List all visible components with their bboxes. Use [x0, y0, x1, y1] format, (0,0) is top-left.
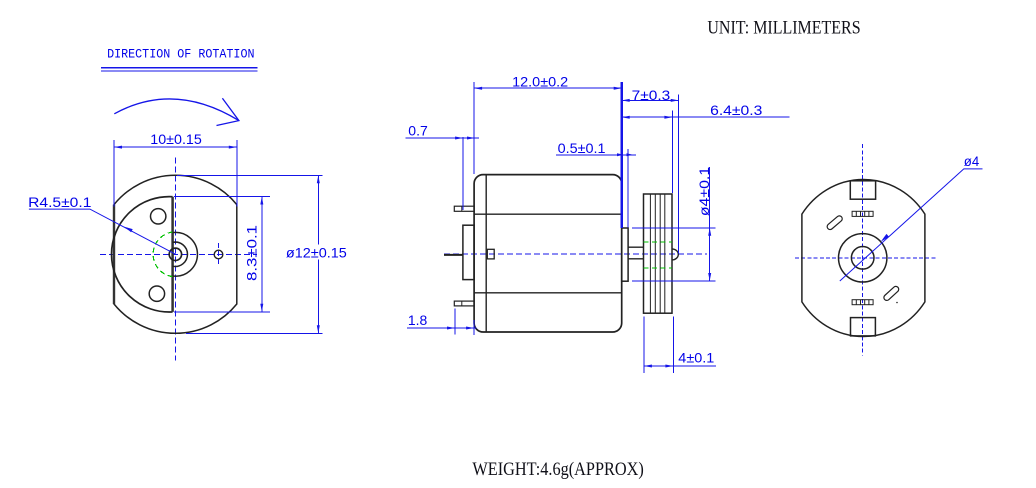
- unit note: [707, 17, 860, 38]
- dimension ø12±0.15: [177, 175, 348, 333]
- dimension 0.7: [405, 122, 479, 210]
- bearing boss circle: [839, 234, 887, 282]
- right view horizontal centerline: [795, 257, 936, 259]
- dimension 0.5±0.1: [556, 140, 636, 228]
- bottom crimp bar: [852, 300, 873, 305]
- endcap D-contour vertical edge: [171, 197, 174, 312]
- svg-text:WEIGHT:4.6g(APPROX): WEIGHT:4.6g(APPROX): [472, 459, 643, 480]
- dimension 1.8: [407, 309, 477, 335]
- svg-text:0.7: 0.7: [408, 122, 428, 138]
- lower-right vent slot: [883, 285, 900, 301]
- weight note: [472, 459, 643, 480]
- rear boss rectangle: [463, 225, 474, 279]
- svg-text:0.5±0.1: 0.5±0.1: [558, 140, 606, 156]
- dimension 10±0.15: [114, 131, 237, 207]
- bearing hub arc large: [173, 232, 198, 276]
- green shaft reference dashes: [644, 242, 673, 268]
- shaft hole circle rear: [851, 246, 874, 269]
- rear shaft stub: [444, 254, 463, 256]
- bottom brush tab: [851, 318, 876, 336]
- dimension 8.3±0.1: [174, 197, 270, 312]
- front boss rectangle: [622, 228, 628, 281]
- svg-text:UNIT: MILLIMETERS: UNIT: MILLIMETERS: [707, 17, 860, 38]
- terminal pin top: [454, 206, 474, 211]
- endcap seam line: [485, 175, 487, 332]
- body crimp line top: [474, 213, 622, 215]
- svg-text:1.8: 1.8: [408, 312, 428, 328]
- svg-text:10±0.15: 10±0.15: [150, 131, 202, 147]
- left view horizontal centerline: [100, 253, 257, 255]
- rotation arrow: [114, 98, 239, 125]
- terminal pin bottom: [454, 301, 474, 306]
- lower mounting hole: [149, 286, 164, 301]
- small pilot hole right of center: [214, 243, 223, 267]
- right view vertical centerline: [862, 144, 864, 356]
- dimension 4±0.1: [644, 317, 716, 373]
- left view vertical centerline: [174, 158, 176, 361]
- dimension 7±0.3: [622, 87, 679, 254]
- svg-text:ø4: ø4: [964, 153, 980, 169]
- svg-text:7±0.3: 7±0.3: [632, 87, 671, 103]
- rear endcap outer contour: [802, 179, 925, 336]
- top brush tab: [850, 181, 875, 199]
- callout ø4: [840, 153, 983, 281]
- motor body outline: [474, 175, 622, 332]
- endcap D-contour arc R4.5: [112, 197, 173, 312]
- svg-text:R4.5±0.1: R4.5±0.1: [28, 194, 92, 210]
- radius callout R4.5±0.1: [28, 194, 175, 254]
- svg-text:8.3±0.1: 8.3±0.1: [243, 225, 259, 281]
- direction of rotation label: [101, 47, 257, 71]
- motor face outer contour (circle dia12 with side flats): [114, 175, 237, 333]
- svg-text:12.0±0.2: 12.0±0.2: [512, 73, 568, 89]
- internal bearing square: [487, 249, 494, 259]
- body crimp line bottom: [474, 292, 622, 294]
- bearing hub arc small: [173, 242, 188, 266]
- upper mounting hole: [151, 209, 166, 224]
- worm gear body: [644, 194, 673, 313]
- shaft tip round end: [672, 249, 678, 260]
- dimension ø4±0.1 vertical: [632, 167, 716, 281]
- upper-left vent slot: [826, 215, 843, 231]
- front shaft lines: [628, 247, 643, 259]
- middle view horizontal centerline: [444, 253, 707, 255]
- dimension 12.0±0.2: [474, 73, 622, 228]
- shaft hole circle: [169, 248, 181, 260]
- left flat thick edge: [113, 205, 115, 304]
- top crimp bar: [852, 211, 873, 216]
- stray dot: [896, 302, 898, 304]
- green reference dashed arc: [153, 232, 173, 277]
- svg-text:4±0.1: 4±0.1: [678, 350, 714, 366]
- svg-text:ø12±0.15: ø12±0.15: [286, 245, 347, 261]
- svg-text:ø4±0.1: ø4±0.1: [696, 167, 712, 217]
- svg-text:DIRECTION OF ROTATION: DIRECTION OF ROTATION: [107, 47, 254, 61]
- svg-text:6.4±0.3: 6.4±0.3: [710, 102, 762, 118]
- dimension 6.4±0.3: [622, 102, 790, 193]
